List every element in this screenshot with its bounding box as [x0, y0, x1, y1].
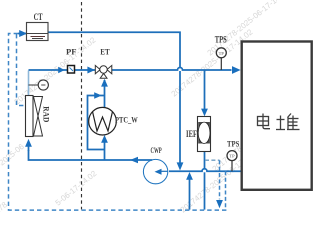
wire: arrow into stack inlet — [232, 66, 241, 74]
boundary divider (black dashed) — [81, 2, 83, 209]
svg-text:TPS: TPS — [227, 138, 240, 148]
wire: pump internal arrow — [161, 170, 168, 172]
fuel cell stack 电堆 — [242, 42, 312, 190]
wire: radiator outlet riser to PF — [28, 71, 30, 96]
wire: dashed IEF drain link (horizontal) — [205, 159, 220, 161]
svg-text:TP: TP — [229, 154, 235, 159]
pump CWP — [143, 145, 167, 184]
svg-text:TPS: TPS — [215, 35, 227, 45]
wire: PTC riser from return line with up arrow — [104, 141, 106, 160]
ion exchanger IEF — [186, 117, 211, 152]
wire: CT inlet arrow — [18, 33, 27, 35]
wire: dashed drop from return line to boundary — [225, 171, 227, 209]
level sensor at radiator riser — [29, 80, 49, 90]
wire: PF to ET segment with arrow — [75, 69, 95, 71]
wire: PTC bypass (left loop with right arrow) — [88, 96, 105, 150]
wire: dashed CT-to-RAD line — [17, 34, 26, 106]
wire: drain/fill line with up arrow into return line — [189, 174, 191, 210]
svg-text:ET: ET — [100, 47, 110, 57]
svg-text:RAD: RAD — [42, 106, 52, 122]
wire: CT outlet top line and tank-return drop — [48, 32, 180, 67]
svg-text:PF: PF — [66, 47, 77, 57]
glyph 电 — [258, 114, 271, 129]
wire: PTC outlet to ET bottom with up arrow — [104, 80, 106, 107]
wire: dashed coolant-fill boundary (left + bottom) — [9, 34, 228, 211]
wire: main supply line ET to stack (hop at x=179.5) — [112, 68, 232, 71]
svg-text:CT: CT — [34, 13, 43, 23]
wire: IEF feed drop from supply line with down arrow — [204, 70, 206, 109]
svg-text:CWP: CWP — [151, 145, 162, 155]
glyph 堆 — [276, 114, 300, 131]
sensor TPS (stack outlet) — [227, 138, 240, 171]
wire: IEF outlet down to boundary — [204, 151, 206, 168]
svg-text:PTC_W: PTC_W — [115, 114, 138, 124]
wire: dashed drain drop with down arrow — [219, 160, 221, 199]
svg-text:TP: TP — [219, 51, 225, 56]
valve ET (three-way) — [95, 65, 112, 78]
wire: arrow into PF — [58, 67, 64, 74]
tank CT — [27, 13, 49, 41]
radiator RAD with fan — [26, 96, 52, 137]
heater PTC_W — [89, 107, 138, 135]
svg-text:IEF: IEF — [186, 129, 197, 139]
wire: stack return line to pump (hop at x=204.5) — [169, 169, 241, 171]
sensor TPS (stack inlet) — [215, 35, 227, 71]
filter PF — [66, 47, 77, 74]
wire: pump outlet line to radiator with left arrow and RAD up arrow — [29, 150, 153, 160]
wire: tank-return down arrow into stack return line — [177, 162, 184, 170]
